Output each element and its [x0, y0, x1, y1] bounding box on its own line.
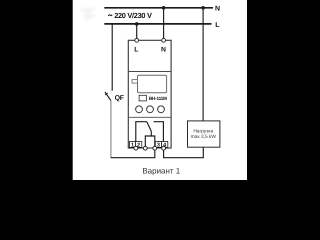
- wire N bus to load: [202, 8, 204, 121]
- wire QF lower drop: [110, 100, 112, 158]
- wire N bus: [104, 7, 213, 9]
- svg-text:QF: QF: [115, 95, 125, 102]
- contact: blade drop: [150, 131, 152, 136]
- terminal circle N: [162, 38, 166, 42]
- svg-text:220 V/230 V: 220 V/230 V: [114, 11, 152, 20]
- terminal cell 4: [162, 142, 168, 148]
- white content panel: [73, 0, 247, 180]
- junction dot on L bus: [135, 22, 139, 26]
- svg-text:ВН-111М: ВН-111М: [149, 96, 167, 101]
- svg-text:N: N: [161, 46, 166, 53]
- lcd side nub: [132, 80, 138, 84]
- breaker QF tick: [105, 93, 108, 95]
- wire device N terminal to N bus: [163, 8, 165, 39]
- terminal circle L: [135, 38, 139, 42]
- terminal cell 3: [155, 142, 161, 148]
- svg-text:max 3,5 kW: max 3,5 kW: [191, 134, 217, 140]
- svg-text:3: 3: [157, 143, 160, 149]
- divider upper: [128, 71, 171, 73]
- bottom terminal circle 2: [143, 146, 147, 150]
- contact: bridge staple 2-3: [145, 136, 155, 146]
- bottom terminal circle 3: [153, 146, 157, 150]
- bottom terminal circle 4: [162, 146, 166, 150]
- wire QF drop from L bus: [111, 24, 113, 91]
- load box: [188, 121, 220, 147]
- contact: blade: [147, 122, 152, 132]
- divider lower: [128, 116, 171, 118]
- contact: right rail: [154, 122, 164, 147]
- bottom terminal circle 1: [134, 146, 138, 150]
- lcd screen: [138, 75, 167, 92]
- junction dot on N bus: [162, 6, 166, 10]
- button 2: [147, 106, 154, 113]
- svg-text:Вариант 1: Вариант 1: [142, 167, 180, 176]
- svg-text:Нагрузка: Нагрузка: [193, 128, 213, 134]
- svg-text:L: L: [215, 22, 220, 29]
- button 3: [158, 106, 165, 113]
- contact: left fixed rail: [136, 122, 147, 147]
- terminal cell 1: [129, 142, 135, 148]
- wire device L terminal to L bus: [136, 24, 138, 39]
- junction dot N bus load tap: [201, 6, 205, 10]
- label ~220V/230V: [108, 15, 112, 16]
- wire L bus: [104, 23, 211, 25]
- wire QF to terminal 3: [111, 150, 155, 158]
- terminal cell 2: [136, 142, 142, 148]
- wire terminal 4 to load: [164, 147, 204, 158]
- device box (timer BH-111M): [128, 40, 171, 148]
- button 1: [136, 106, 143, 113]
- breaker QF blade: [105, 92, 111, 101]
- svg-text:N: N: [215, 6, 220, 13]
- checkbox square: [139, 95, 146, 101]
- svg-text:L: L: [134, 46, 138, 53]
